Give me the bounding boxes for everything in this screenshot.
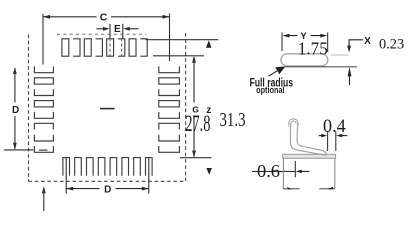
top pad 6 <box>118 39 125 56</box>
dimension C line <box>43 16 170 18</box>
dimension D left extension line bottom <box>4 149 34 151</box>
top pad row <box>62 39 147 56</box>
dimension D bottom arrowhead left <box>66 187 73 191</box>
right pad 3 <box>159 89 180 95</box>
dimension D left extension dash inside pad <box>39 149 48 151</box>
dimension C arrowhead left <box>43 15 50 19</box>
body left edge <box>282 158 284 188</box>
body bottom right corner <box>319 188 335 190</box>
left pad row <box>34 66 53 152</box>
dimension E centerline right (dashed through pad) <box>121 38 123 57</box>
top pad 4 <box>96 39 103 56</box>
left pad 5 <box>34 112 53 118</box>
package body outline (dashed) right edge <box>185 33 187 181</box>
dimension E tick left <box>109 24 111 39</box>
package body outline (dashed) top edge <box>57 33 146 35</box>
bottom pad 2 <box>75 158 82 176</box>
top pad 7 <box>129 39 136 56</box>
dimension 0.4 arrow right <box>342 135 348 137</box>
package body outline (dashed) bottom edge <box>29 180 186 182</box>
body bottom left mark <box>287 187 292 190</box>
dimension G arrowhead down <box>192 151 196 158</box>
dimension D bottom arrowhead right <box>142 187 149 191</box>
right pad 8 <box>159 146 180 152</box>
dimension C extension line left <box>42 14 44 65</box>
dimension E centerline left (dashed through pad) <box>109 38 111 57</box>
svg-text:0.6: 0.6 <box>257 161 280 181</box>
lead (gull wing) hook inner arc <box>291 121 296 126</box>
up arrow to pad bottom <box>349 76 351 85</box>
lead (gull wing) right edge and foot top <box>297 124 327 155</box>
body right edge <box>334 158 336 188</box>
svg-text:0.23: 0.23 <box>379 36 404 53</box>
dimension Z arrowhead up <box>206 40 212 47</box>
dimension 0.4 arrow left <box>319 135 322 137</box>
dimension 0.6 line through text <box>252 170 295 172</box>
left pad 2 <box>34 78 53 84</box>
dimension Z arrowhead down <box>206 168 212 175</box>
top pad 2 <box>73 39 80 56</box>
right pad 1 <box>159 66 180 72</box>
seating pad bar <box>283 154 336 158</box>
extension line pad bottom <box>285 66 357 68</box>
right pad 6 <box>159 123 180 129</box>
dimension Y line with arrows <box>289 35 322 37</box>
dimension 0.4 tick left <box>327 132 329 151</box>
svg-text:D: D <box>12 105 19 116</box>
top pad 1 <box>62 39 69 56</box>
bottom pad 8 <box>146 158 153 176</box>
dimension G line <box>193 57 195 157</box>
svg-text:C: C <box>100 11 108 23</box>
left pad 6 <box>34 123 53 129</box>
right pad row <box>159 66 180 152</box>
dimension D bottom tick left <box>65 157 67 193</box>
body bottom left corner <box>283 188 299 190</box>
top pad 5 <box>107 39 114 56</box>
full radius leader arrowhead <box>275 66 285 74</box>
right pad 2 <box>159 78 180 84</box>
dimension G extension line bottom <box>180 157 212 159</box>
leader arrow under bottom edge <box>43 192 45 212</box>
dimension D bottom tick right <box>148 157 150 193</box>
bottom pad 3 <box>87 158 94 176</box>
bottom pad row <box>63 158 152 176</box>
dimension 0.6 tick <box>294 161 296 177</box>
dimension Y tick left <box>281 33 283 52</box>
dimension D left line <box>14 68 16 149</box>
svg-text:0.4: 0.4 <box>323 117 346 137</box>
dimension X bracket <box>349 40 363 47</box>
left pad 3 <box>34 89 53 95</box>
svg-text:optional: optional <box>256 85 285 96</box>
bottom pad 1 <box>63 158 70 176</box>
bottom pad 4 <box>98 158 105 176</box>
dimension 0.4 tick right <box>335 132 337 151</box>
right pad 4 <box>159 101 180 107</box>
svg-text:E: E <box>114 24 121 35</box>
svg-text:31.3: 31.3 <box>220 109 246 131</box>
dimension E tick right <box>122 24 124 39</box>
dimension C extension line right <box>169 14 171 62</box>
left pad 8 <box>34 146 53 152</box>
full radius leader line <box>269 71 278 76</box>
bottom pad 6 <box>122 158 129 176</box>
dimension Y tick right <box>327 33 329 53</box>
body bottom right mark <box>327 187 333 190</box>
center mark dash <box>100 108 115 110</box>
dimension C arrowhead right <box>163 15 170 19</box>
svg-text:27.8: 27.8 <box>185 111 210 136</box>
bottom pad 7 <box>134 158 141 176</box>
top pad 3 <box>84 39 91 56</box>
right pad 7 <box>159 135 180 141</box>
svg-text:X: X <box>364 36 371 47</box>
svg-text:1.75: 1.75 <box>298 39 328 59</box>
extension stub pad top <box>331 54 348 56</box>
dimension G arrowhead up <box>192 56 196 63</box>
lead (gull wing) hook outer arc <box>289 119 298 127</box>
svg-text:D: D <box>104 184 111 195</box>
left pad 1 <box>34 66 53 72</box>
dimension 0.6 tail and arrowhead <box>301 170 310 172</box>
dimension G extension line top <box>153 55 204 57</box>
stadium pad (full radius pad) <box>281 54 328 66</box>
dimension D left arrowhead down <box>13 143 17 150</box>
right pad 5 <box>159 112 180 118</box>
dimension Z extension line top <box>146 39 219 41</box>
top pad 8 <box>140 39 147 56</box>
left pad 7 <box>34 135 53 141</box>
dimension E arrow right <box>130 28 139 30</box>
package body outline (dashed) left edge <box>28 35 30 182</box>
bottom pad 5 <box>110 158 117 176</box>
dimension D left arrowhead up <box>13 67 17 74</box>
lead (gull wing) left edge and foot bottom <box>290 126 326 155</box>
dimension X arrowhead down <box>347 46 351 53</box>
dimension D bottom line <box>66 188 149 190</box>
dimension E arrow left <box>97 28 104 30</box>
left pad 4 <box>34 101 53 107</box>
